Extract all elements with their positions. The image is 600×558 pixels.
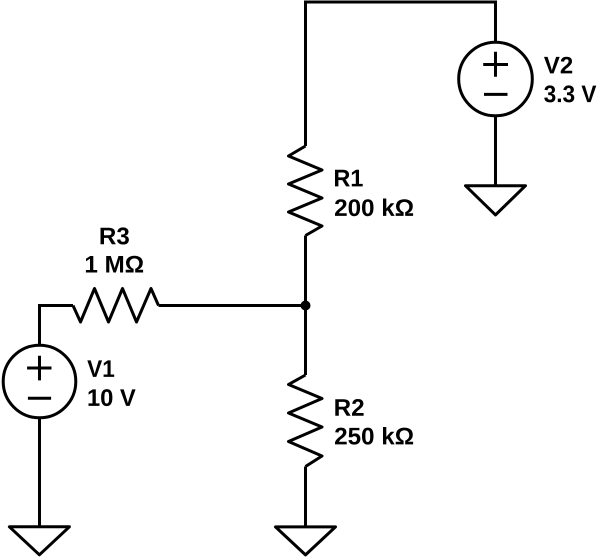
V1 plus sign (27, 356, 51, 381)
value 3.3 V (544, 85, 596, 102)
value 10 V (89, 389, 136, 406)
wire V2 to ground (494, 116, 497, 186)
ground below V1 (9, 527, 69, 555)
ground below V2 (466, 186, 526, 215)
ground below R2 (276, 527, 336, 555)
label V1 (87, 360, 114, 377)
label V2 (544, 57, 572, 74)
label R1 (335, 170, 363, 187)
wire corner down to V1 (38, 304, 41, 345)
value 250 kOhm (335, 427, 413, 445)
wire R1 top lead (304, 1, 307, 147)
label R2 (335, 399, 363, 416)
voltage source V2 circle (459, 42, 533, 116)
voltage source V1 circle (3, 345, 76, 418)
V1 minus sign (28, 397, 51, 400)
wire V1 to ground (38, 418, 41, 527)
node junction dot (301, 301, 311, 311)
value 1 MOhm (86, 256, 143, 273)
wire node to R3 right lead (159, 304, 308, 307)
resistor R1 zigzag (289, 146, 323, 236)
resistor R3 zigzag (73, 289, 159, 323)
wire V2 top lead (494, 1, 497, 43)
value 200 kOhm (335, 199, 413, 217)
wire top rail (304, 1, 497, 4)
wire R2 to ground (304, 467, 307, 528)
resistor R2 zigzag (289, 375, 323, 467)
wire R3 left lead (40, 304, 74, 307)
V2 plus sign (483, 52, 508, 77)
wire node to R2 (304, 306, 307, 376)
label R3 (101, 227, 129, 244)
V2 minus sign (484, 93, 508, 96)
wire R1 bottom to node (304, 236, 307, 306)
